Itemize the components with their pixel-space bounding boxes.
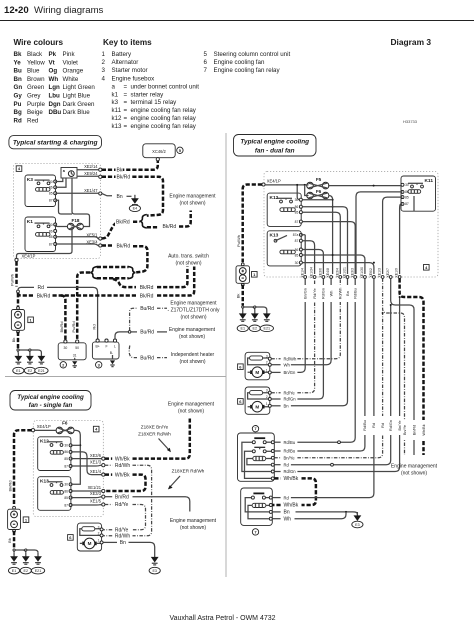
svg-text:Bn/Rd: Bn/Rd xyxy=(412,425,416,436)
svg-text:Rd/Bu: Rd/Bu xyxy=(354,288,358,299)
svg-text:Rd/Gn: Rd/Gn xyxy=(284,469,297,474)
svg-text:Bk/Rd: Bk/Rd xyxy=(163,224,177,230)
svg-text:1: 1 xyxy=(102,51,106,58)
svg-text:86: 86 xyxy=(49,229,53,233)
svg-text:Engine management: Engine management xyxy=(169,327,216,333)
svg-text:85: 85 xyxy=(295,211,299,215)
title typical starting and charging xyxy=(9,136,102,149)
wire K3-30 to a-box xyxy=(55,178,63,182)
svg-text:engine cooling fan relay: engine cooling fan relay xyxy=(131,107,197,114)
wire F18 to K1-30 xyxy=(56,225,68,227)
wire BnRd XE3/3 to engine mgmt xyxy=(105,494,190,511)
svg-text:E2: E2 xyxy=(253,327,258,331)
svg-text:Bn: Bn xyxy=(284,404,290,409)
svg-text:K11: K11 xyxy=(424,178,433,184)
svg-text:Typical starting & charging: Typical starting & charging xyxy=(13,140,98,147)
fusebox single item label 4 xyxy=(93,426,99,432)
svg-text:- Z17DTL/Z17DTH only: - Z17DTL/Z17DTH only xyxy=(168,307,220,313)
svg-text:E1: E1 xyxy=(12,569,17,573)
relay K1 switch xyxy=(35,223,50,228)
wire brace tip to starter 50 xyxy=(77,273,90,342)
svg-text:Light Blue: Light Blue xyxy=(63,93,91,100)
relay 7a pins xyxy=(271,441,274,480)
wire label starter30 xyxy=(59,322,64,333)
svg-text:Wh/Bk: Wh/Bk xyxy=(115,456,130,462)
svg-text:Rd/Bu: Rd/Bu xyxy=(363,420,367,431)
relay 7b pins xyxy=(269,496,272,520)
svg-text:85: 85 xyxy=(405,195,409,199)
svg-text:XE3/6: XE3/6 xyxy=(90,453,102,458)
svg-text:50: 50 xyxy=(75,346,79,350)
key to items heading xyxy=(103,38,152,47)
svg-text:Bk/Rd: Bk/Rd xyxy=(116,219,130,225)
wire BuRd Z17 engine management xyxy=(130,306,167,331)
svg-text:30: 30 xyxy=(49,223,53,227)
steering column control unit XC46/2 xyxy=(143,144,175,161)
svg-text:M: M xyxy=(255,370,259,375)
fusebox dual bottom connectors xyxy=(304,276,401,279)
wire Rd/Gn fan6b pin2 xyxy=(271,278,323,402)
relay K3 box xyxy=(25,175,56,207)
svg-text:E1: E1 xyxy=(240,327,245,331)
wire fusebox internal to XE4/1P xyxy=(17,227,73,259)
svg-text:XE3/4: XE3/4 xyxy=(335,268,339,278)
wire battery single to grounds xyxy=(7,531,38,553)
svg-text:Wh/Bk: Wh/Bk xyxy=(284,476,299,482)
svg-text:XE1/21: XE1/21 xyxy=(343,267,347,279)
svg-text:Wh/Bk: Wh/Bk xyxy=(284,503,299,509)
text independent heater xyxy=(171,352,215,365)
svg-text:Rd: Rd xyxy=(92,324,97,329)
engine cooling fan motor 6b xyxy=(245,387,271,414)
connector XE5/1 xyxy=(86,233,102,240)
svg-text:86: 86 xyxy=(64,450,68,454)
fuse F5 xyxy=(307,177,329,189)
wire K12-85 row xyxy=(303,212,341,274)
svg-text:Rd/Gn: Rd/Gn xyxy=(284,397,297,402)
wire XE4/1P to F6 single xyxy=(35,429,57,431)
svg-text:Wh/Bk: Wh/Bk xyxy=(115,472,130,478)
svg-text:Rd/Gn: Rd/Gn xyxy=(389,420,393,431)
svg-text:under bonnet control unit: under bonnet control unit xyxy=(131,83,200,90)
svg-text:DBu: DBu xyxy=(49,109,62,116)
engine fusebox 4 outline (dual fan) xyxy=(264,172,438,278)
svg-text:engine cooling fan relay: engine cooling fan relay xyxy=(131,123,197,130)
svg-text:85: 85 xyxy=(64,457,68,461)
svg-text:Bn/Ye: Bn/Ye xyxy=(284,456,296,461)
svg-text:fan - dual fan: fan - dual fan xyxy=(255,147,295,154)
svg-text:Brown: Brown xyxy=(27,76,45,83)
wire label Rd alternator xyxy=(92,324,97,329)
svg-text:Rd: Rd xyxy=(284,495,290,500)
svg-text:XE1/9: XE1/9 xyxy=(395,268,399,278)
wire WhBk to engine mgmt dual xyxy=(400,278,426,455)
svg-text:XC46/2: XC46/2 xyxy=(152,149,166,154)
svg-text:Bk/Rd: Bk/Rd xyxy=(117,175,131,181)
ground E2 xyxy=(24,353,35,374)
alternator 3 xyxy=(92,339,119,359)
item label 2 circled xyxy=(60,362,66,368)
svg-text:Og: Og xyxy=(49,68,58,75)
svg-text:Wh/Bk: Wh/Bk xyxy=(422,424,426,435)
item label 1 box xyxy=(28,317,34,323)
svg-text:fan - single fan: fan - single fan xyxy=(29,402,73,409)
svg-text:Vt: Vt xyxy=(49,59,55,66)
item label 6s xyxy=(68,535,74,541)
brace lower left xyxy=(90,267,97,279)
relay K13 single coil xyxy=(50,491,63,495)
svg-text:(not shown): (not shown) xyxy=(180,314,206,320)
wire colours table xyxy=(14,51,96,124)
svg-text:XE2/14: XE2/14 xyxy=(84,164,98,169)
svg-text:Bk/Rd: Bk/Rd xyxy=(117,244,131,250)
svg-text:6: 6 xyxy=(204,59,208,66)
item label 5 circled xyxy=(177,147,183,153)
svg-text:Lgn: Lgn xyxy=(49,84,61,91)
svg-text:Ye: Ye xyxy=(14,59,22,66)
svg-text:Beige: Beige xyxy=(27,109,43,116)
wire F6 bus single xyxy=(71,430,82,484)
section divider vertical xyxy=(225,133,227,577)
wire K11-85 row xyxy=(383,197,403,274)
svg-text:86: 86 xyxy=(64,489,68,493)
relay K12 single coil xyxy=(50,451,63,455)
svg-text:Wh: Wh xyxy=(284,516,292,522)
svg-text:Purple: Purple xyxy=(27,101,45,108)
svg-text:F6: F6 xyxy=(316,189,322,194)
wire RdWh XE1/3 to fan pin2 xyxy=(103,463,151,540)
svg-text:Engine management: Engine management xyxy=(170,300,217,306)
wire K12-87 row xyxy=(303,222,356,274)
svg-text:30: 30 xyxy=(295,261,299,265)
ground E2 single xyxy=(20,553,31,574)
footer caption xyxy=(169,615,275,622)
wire Rd relay7b p1 xyxy=(272,278,374,501)
wire PuWh feed dual xyxy=(236,185,262,263)
wire Rd/Bu relay7a p2 xyxy=(274,278,365,454)
wire K12s-87 to XE1/3 xyxy=(71,464,102,467)
svg-text:87: 87 xyxy=(64,503,68,507)
svg-text:86: 86 xyxy=(295,205,299,209)
key to items list left xyxy=(102,51,200,130)
wire F5 to K11-30 xyxy=(328,185,401,187)
svg-text:Z18XE Bn/Ye: Z18XE Bn/Ye xyxy=(141,424,169,429)
svg-text:Bk/Rd: Bk/Rd xyxy=(8,481,13,492)
svg-text:Vauxhall Astra Petrol - OWM 47: Vauxhall Astra Petrol - OWM 4732 xyxy=(169,615,275,622)
relay 7b internal wires xyxy=(245,498,269,519)
relay 7b coil xyxy=(252,503,269,507)
svg-text:Blue: Blue xyxy=(27,68,40,75)
svg-text:Bn: Bn xyxy=(284,510,290,516)
svg-text:Wire colours: Wire colours xyxy=(14,38,64,47)
svg-text:M: M xyxy=(88,541,92,546)
svg-text:2: 2 xyxy=(266,395,268,399)
svg-text:Pu/Wh: Pu/Wh xyxy=(236,235,241,247)
wire Rd relay7a p4 xyxy=(274,304,391,468)
relay K12 switch xyxy=(277,198,292,203)
relay K13 single switch xyxy=(48,482,63,487)
battery 1 dual xyxy=(236,263,250,286)
svg-text:87a: 87a xyxy=(293,233,299,237)
wire Bk XE2/14 to XC46/2 xyxy=(102,161,158,174)
relay K13 pins xyxy=(293,233,303,265)
brace upper pair xyxy=(140,215,147,229)
svg-text:Rd/Bu: Rd/Bu xyxy=(284,449,296,454)
svg-text:Pk: Pk xyxy=(49,51,57,58)
wire drop to starter 30 xyxy=(61,296,66,342)
starter motor 2 xyxy=(58,340,86,360)
svg-text:30: 30 xyxy=(64,444,68,448)
svg-text:87: 87 xyxy=(49,242,53,246)
svg-text:87: 87 xyxy=(64,464,68,468)
svg-text:Engine management: Engine management xyxy=(168,401,215,407)
svg-text:XE3/3: XE3/3 xyxy=(350,268,354,278)
svg-text:2: 2 xyxy=(266,361,268,365)
svg-text:Rd/Bu: Rd/Bu xyxy=(284,440,296,445)
ground E21 single xyxy=(31,553,44,574)
wire K13s-87 to XE1/5 xyxy=(71,504,102,506)
svg-text:Engine management: Engine management xyxy=(391,463,438,469)
svg-text:F6: F6 xyxy=(62,421,68,426)
wire XE4/1P to fuses xyxy=(265,184,309,196)
svg-text:Key to items: Key to items xyxy=(103,38,152,47)
relay K12 single pins xyxy=(64,444,72,469)
relay K13 switch xyxy=(274,235,287,242)
svg-text:Alternator: Alternator xyxy=(112,59,139,66)
svg-text:XE4/8: XE4/8 xyxy=(326,268,330,278)
svg-text:30: 30 xyxy=(49,180,53,184)
svg-text:White: White xyxy=(63,76,79,83)
svg-text:M: M xyxy=(255,404,259,409)
svg-text:XE6/2: XE6/2 xyxy=(369,268,373,278)
wire Rd/Ye fan6b pin3 xyxy=(271,278,314,396)
svg-text:Pink: Pink xyxy=(63,51,76,58)
svg-text:Bn/Ye: Bn/Ye xyxy=(398,421,402,431)
svg-text:a: a xyxy=(112,83,116,90)
svg-text:E21: E21 xyxy=(264,327,271,331)
svg-text:Wh: Wh xyxy=(329,291,333,297)
relay 7b box xyxy=(241,488,273,525)
svg-text:=: = xyxy=(124,107,128,114)
svg-text:E1: E1 xyxy=(16,369,21,373)
svg-text:Gy: Gy xyxy=(14,93,23,100)
svg-text:E21: E21 xyxy=(38,369,45,373)
svg-text:Bn/Gn: Bn/Gn xyxy=(284,370,297,375)
svg-text:Diagram 3: Diagram 3 xyxy=(391,37,432,47)
ground E1 single xyxy=(8,553,19,574)
battery 1 single xyxy=(8,506,21,532)
wire K13-30 row xyxy=(303,262,375,274)
svg-text:Rd: Rd xyxy=(381,423,385,428)
svg-text:XE3/6: XE3/6 xyxy=(319,268,323,278)
wire K12s-86 to XE1/4 xyxy=(71,452,102,475)
svg-text:Rd/Ye: Rd/Ye xyxy=(284,390,296,395)
wire label starter50 xyxy=(71,321,76,332)
svg-text:Engine fusebox: Engine fusebox xyxy=(112,75,156,82)
svg-text:1: 1 xyxy=(266,368,268,372)
wire brace to engine management 1 xyxy=(147,211,191,231)
svg-text:Bn/Gn: Bn/Gn xyxy=(304,288,308,299)
connector XE3/3 xyxy=(90,491,105,498)
ground E21 dual xyxy=(260,310,273,332)
wire BkRd feed single xyxy=(8,430,32,506)
wire K3-87 down xyxy=(55,200,72,214)
svg-text:Rd/Wh: Rd/Wh xyxy=(284,356,297,361)
svg-text:Pu/Wh: Pu/Wh xyxy=(10,274,15,286)
relay K1 pins xyxy=(49,223,57,247)
key to items list right xyxy=(204,51,291,74)
relay K12 box xyxy=(267,193,301,226)
svg-text:Rd/Ye: Rd/Ye xyxy=(115,527,129,533)
svg-text:Gn: Gn xyxy=(14,84,23,91)
svg-text:Pu: Pu xyxy=(14,101,22,108)
connector XE2/14 xyxy=(84,164,102,171)
svg-text:XE1/3: XE1/3 xyxy=(378,268,382,278)
svg-text:86: 86 xyxy=(49,186,53,190)
svg-text:Light Green: Light Green xyxy=(63,84,96,91)
svg-text:XE1/5: XE1/5 xyxy=(90,499,102,504)
svg-text:Bu/Rd: Bu/Rd xyxy=(140,355,154,361)
exit wire labels right group xyxy=(362,416,402,435)
svg-text:XE1/34: XE1/34 xyxy=(310,267,314,279)
connector XE4/1P single xyxy=(31,424,51,432)
svg-text:F: F xyxy=(105,345,107,349)
svg-text:Rd/Ye: Rd/Ye xyxy=(115,502,129,508)
wire K12s-30 row xyxy=(71,444,81,446)
starter ground xyxy=(72,358,77,368)
relay 7a internal wires xyxy=(242,442,271,478)
connector XE1/21 xyxy=(88,485,105,492)
engine cooling fan motor 6a xyxy=(245,352,271,380)
title typical engine cooling fan single xyxy=(10,391,91,411)
svg-text:k11: k11 xyxy=(112,107,122,114)
svg-text:(not shown): (not shown) xyxy=(180,525,206,531)
svg-text:k3: k3 xyxy=(112,99,119,106)
item label 7b circled xyxy=(252,529,258,535)
wire Bn fan6b pin1 xyxy=(271,278,347,409)
engine cooling fan motor 6s xyxy=(77,523,103,551)
svg-text:Bk/Rd: Bk/Rd xyxy=(59,322,64,333)
relay K12 coil xyxy=(280,208,295,212)
wire K11-86 row xyxy=(356,192,403,274)
svg-text:Starter motor: Starter motor xyxy=(112,67,148,74)
svg-text:Independent heater: Independent heater xyxy=(171,352,215,358)
wire K1-87 to XE3/4 xyxy=(55,244,99,246)
svg-text:Dark Blue: Dark Blue xyxy=(63,109,91,116)
svg-text:Rd/Wh: Rd/Wh xyxy=(115,534,130,540)
svg-text:Bn/Rd: Bn/Rd xyxy=(115,494,129,500)
wire BnYe to engine mgmt dual xyxy=(383,278,407,455)
svg-text:Steering column control unit: Steering column control unit xyxy=(214,51,291,58)
wire K13-87 row xyxy=(303,241,315,274)
svg-text:7: 7 xyxy=(204,67,208,74)
item label 1 single xyxy=(23,517,29,523)
battery 1 (starting section) xyxy=(11,307,24,334)
svg-text:starter relay: starter relay xyxy=(131,91,165,98)
svg-text:(not shown): (not shown) xyxy=(175,260,201,266)
svg-text:Bk/Rd: Bk/Rd xyxy=(140,293,154,299)
wire K3-86 up xyxy=(55,178,66,187)
svg-text:Rd: Rd xyxy=(372,423,376,428)
wire K11 coil stem xyxy=(413,196,415,211)
svg-text:Bk/Rd: Bk/Rd xyxy=(140,285,154,291)
wire brace run upper xyxy=(97,266,129,269)
wire brace run lower xyxy=(97,277,129,280)
wire Bn fan pin1 to ground E3 xyxy=(103,540,155,554)
section divider horizontal xyxy=(5,376,226,378)
svg-text:Z18XER Rd/Wh: Z18XER Rd/Wh xyxy=(138,431,171,436)
wire auto trans A xyxy=(113,267,187,291)
svg-text:Dark Green: Dark Green xyxy=(63,101,96,108)
svg-text:K1: K1 xyxy=(27,219,33,225)
svg-text:Green: Green xyxy=(27,84,45,91)
fusebox dual bottom connector labels xyxy=(300,267,398,279)
wire F6 branch down xyxy=(329,196,334,275)
svg-text:K3: K3 xyxy=(27,177,33,183)
svg-text:87: 87 xyxy=(405,202,409,206)
svg-text:5: 5 xyxy=(204,51,208,58)
svg-text:Bk: Bk xyxy=(236,294,241,299)
svg-text:Auto. trans. switch: Auto. trans. switch xyxy=(168,253,209,259)
svg-text:(not shown): (not shown) xyxy=(179,201,205,207)
wire a-box to XE2/14 xyxy=(77,169,99,171)
connector XE3/6 xyxy=(90,453,105,460)
connector XE1/47 xyxy=(84,188,102,195)
connector XE1/4 xyxy=(90,469,105,476)
wire K1-85 to XE5/1 xyxy=(55,237,99,239)
svg-text:Bg: Bg xyxy=(14,109,22,116)
wire BkRd battery junction run xyxy=(18,267,194,300)
engine fusebox 4 outline (starting section) xyxy=(13,164,100,259)
svg-text:F5: F5 xyxy=(316,177,322,182)
svg-text:Bk: Bk xyxy=(7,538,12,543)
svg-text:Rd/Wh: Rd/Wh xyxy=(115,463,130,469)
svg-text:Rd/Wh: Rd/Wh xyxy=(339,288,343,300)
svg-text:Bn: Bn xyxy=(14,76,22,83)
svg-text:Bn: Bn xyxy=(117,194,123,200)
item label 3 circled xyxy=(96,362,102,368)
item label 1 dual xyxy=(252,272,258,278)
svg-text:85: 85 xyxy=(49,235,53,239)
wire Bn/Gn fan6a pin1 xyxy=(271,278,305,376)
svg-text:=: = xyxy=(124,83,128,90)
svg-text:3: 3 xyxy=(266,355,268,359)
svg-text:Typical engine cooling: Typical engine cooling xyxy=(17,394,84,401)
svg-text:XE1/4: XE1/4 xyxy=(90,469,102,474)
svg-text:Battery: Battery xyxy=(112,51,133,58)
svg-text:(not shown): (not shown) xyxy=(401,470,427,476)
ground E3 dual xyxy=(352,512,363,528)
svg-text:XE1/30: XE1/30 xyxy=(360,267,364,279)
svg-text:XE1/47: XE1/47 xyxy=(84,188,98,193)
svg-text:k13: k13 xyxy=(112,123,123,130)
exit wire labels left group xyxy=(302,285,358,302)
svg-text:Bu/Rd: Bu/Rd xyxy=(140,330,154,336)
wire colours heading xyxy=(14,38,64,47)
wire Bn relay7b to ground xyxy=(272,509,357,515)
svg-text:87: 87 xyxy=(295,220,299,224)
wire K3-85 to XE1/47 xyxy=(55,192,99,194)
text engine management Z17 xyxy=(168,300,220,320)
ground E1 dual xyxy=(237,310,248,332)
brace lower right xyxy=(128,267,135,279)
relay 7a switch 1 xyxy=(252,438,271,444)
svg-text:k12: k12 xyxy=(112,115,123,122)
wire K12-86 row xyxy=(303,207,348,274)
relay 7a coil xyxy=(253,456,271,460)
relay K3 switch xyxy=(35,180,50,185)
svg-text:E3: E3 xyxy=(152,569,157,573)
